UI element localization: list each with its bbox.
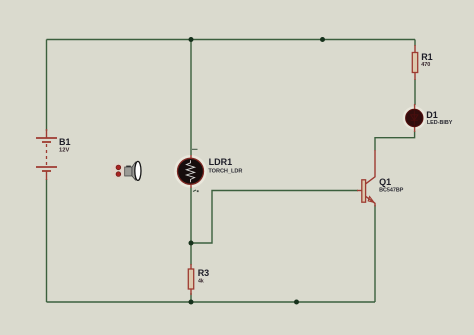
svg-text:LED-BIBY: LED-BIBY bbox=[427, 120, 453, 126]
speaker icon bbox=[111, 161, 141, 180]
svg-text:Q1: Q1 bbox=[379, 177, 391, 187]
wire left vertical bbox=[46, 40, 48, 132]
svg-text:R1: R1 bbox=[421, 52, 433, 62]
junction dot top LDR bbox=[189, 37, 194, 42]
LDR LDR1 bbox=[176, 149, 206, 192]
svg-text:470: 470 bbox=[421, 62, 430, 68]
resistor R3 bbox=[188, 264, 193, 295]
wire LDR bottom vertical bbox=[190, 186, 192, 265]
wire emitter vertical bbox=[374, 205, 376, 302]
wire R1 top bbox=[414, 40, 416, 47]
wire base branch bbox=[191, 191, 358, 244]
svg-text:R3: R3 bbox=[198, 268, 210, 278]
LED D1 bbox=[404, 104, 425, 132]
resistor R1 bbox=[412, 45, 417, 80]
junction dot R3 bottom bbox=[189, 300, 194, 305]
svg-text:12V: 12V bbox=[59, 148, 69, 154]
battery B1 bbox=[36, 129, 57, 180]
wire bottom horizontal bbox=[47, 301, 376, 303]
svg-text:LDR1: LDR1 bbox=[209, 157, 233, 167]
svg-text:B1: B1 bbox=[59, 137, 71, 147]
svg-text:TORCH_LDR: TORCH_LDR bbox=[208, 169, 242, 175]
wire LED to collector corner bbox=[375, 131, 415, 151]
wire R1 to LED bbox=[414, 79, 416, 105]
svg-text:BC547BP: BC547BP bbox=[379, 187, 404, 193]
wire LDR top vertical bbox=[190, 40, 192, 157]
junction dot top middle bbox=[320, 37, 325, 42]
transistor Q1 bbox=[357, 150, 375, 207]
wire left vertical lower bbox=[46, 179, 48, 302]
svg-text:D1: D1 bbox=[426, 110, 438, 120]
wire top horizontal bbox=[47, 39, 416, 41]
wire R3 to bottom bbox=[190, 293, 192, 302]
junction dot LDR base bbox=[189, 241, 194, 246]
junction dot bottom middle bbox=[294, 300, 299, 305]
svg-text:4k: 4k bbox=[198, 279, 204, 285]
